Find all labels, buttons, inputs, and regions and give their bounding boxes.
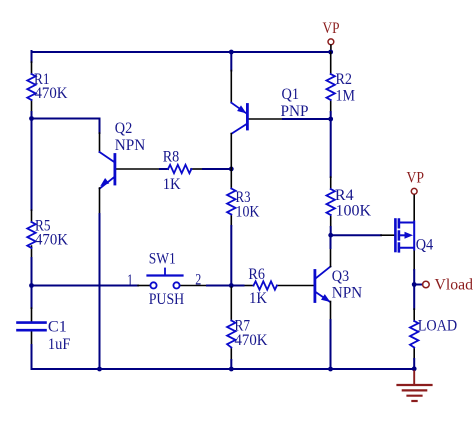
wire branch to Q2 collector [32,119,100,134]
resistor R6 [244,281,314,289]
label R8 [163,148,180,165]
value 1K (R8) [163,176,181,193]
label R3 [236,189,251,206]
svg-text:470K: 470K [235,332,268,349]
svg-text:1: 1 [127,272,133,289]
resistor R7 [227,286,235,361]
wire node G to LOAD [413,285,415,310]
svg-text:C1: C1 [48,319,67,336]
resistor R2 [327,52,335,112]
junction node C (R8 / Q1 collector / R3) [229,167,234,172]
ground [398,371,432,401]
wire R2 to node D [330,112,332,119]
power port VP (right) [411,188,417,194]
label PNP (Q1) [281,103,309,120]
value 470K (R1) [35,85,68,102]
label Q1 [282,86,300,103]
svg-text:NPN: NPN [332,284,363,301]
label R1 [34,71,50,88]
resistor R1 [27,62,35,112]
value 100K (R4) [336,203,372,220]
wire node E to R6 [231,285,243,287]
svg-text:VP: VP [323,20,340,37]
resistor R8 [168,165,203,173]
label LOAD [418,317,458,334]
svg-text:R4: R4 [335,187,354,204]
wire left rail bottom corner [31,345,33,369]
power port Vload [423,281,430,288]
label R5 [35,218,51,235]
value 470K (R5) [35,232,68,249]
resistor R5 [27,210,35,258]
wire node G to Vload port [414,284,422,286]
label VP (right) [407,170,425,187]
junction node B (left rail / switch row) [29,283,34,288]
wire bottom rail [32,368,415,370]
svg-text:100K: 100K [336,203,372,220]
svg-text:470K: 470K [35,85,68,102]
capacitor C1 [18,308,46,345]
wire R7 to bottom rail [230,360,232,369]
switch SW1 [138,269,207,289]
label Q2 [115,120,133,137]
label PUSH (SW1) [149,291,185,308]
svg-text:1M: 1M [336,87,356,104]
pin number 1 (SW1) [127,272,133,289]
wire Q4 source to node G [413,270,415,285]
svg-text:Q1: Q1 [282,86,300,103]
transistor Q4 (MOSFET) [381,195,414,270]
label NPN (Q3) [332,284,363,301]
wire left rail R1 to node A [31,112,33,119]
svg-text:PUSH: PUSH [149,291,185,308]
resistor R3 [227,169,235,226]
label R7 [235,317,251,334]
pin number 2 (SW1) [195,271,201,288]
wire Q1 collector down to node C [230,134,232,170]
value 470K (R7) [235,332,268,349]
label Q4 [416,236,434,253]
junction VP / top rail [328,50,333,55]
svg-text:VP: VP [407,170,425,187]
label SW1 [149,250,176,267]
junction ground node / bottom rail [412,366,417,371]
svg-text:SW1: SW1 [149,250,176,267]
label R6 [248,266,265,283]
label NPN (Q2) [115,137,146,154]
svg-text:NPN: NPN [115,137,146,154]
value 1M (R2) [336,87,356,104]
wire node D to R4 [330,119,332,177]
wire R4 to node F [330,227,332,235]
junction node E (switch row / R7) [229,283,234,288]
svg-text:1K: 1K [249,290,267,307]
svg-text:R2: R2 [336,71,353,88]
wire node F to Q4 gate [331,234,381,236]
transistor Q3 [315,248,331,320]
junction node D (R2 / Q1 base / R4) [328,117,333,122]
wire LOAD to ground node [413,359,415,369]
wire left rail upper [31,51,33,62]
svg-text:R6: R6 [248,266,265,283]
wire R8 to node C [203,168,231,170]
label R4 [335,187,354,204]
svg-text:LOAD: LOAD [418,317,458,334]
label C1 [48,319,67,336]
wire SW1 pin2 to node E [207,285,231,287]
value 10K (R3) [236,204,260,221]
svg-text:2: 2 [195,271,201,288]
wire R3 to node E [230,226,232,286]
svg-text:470K: 470K [35,232,68,249]
wire Q1 emitter stub [230,52,232,71]
label VP (top) [323,20,340,37]
junction node A (left rail / Q2 branch) [29,116,34,121]
transistor Q2 [100,133,161,189]
wire Q3 collector to node F [330,235,332,248]
svg-text:R8: R8 [163,148,180,165]
label Q3 [332,268,350,285]
svg-text:PNP: PNP [281,103,309,120]
label Vload [435,276,474,293]
junction Q3 emitter / bottom rail [328,367,333,372]
wire Q2 base to R8 [160,168,168,170]
wire Q1 base to node D [283,118,331,120]
resistor R4 [327,177,335,227]
svg-text:Q3: Q3 [332,268,350,285]
junction Q1 emitter / top rail [229,50,234,55]
wire left rail mid [31,119,33,211]
svg-text:1uF: 1uF [48,336,71,353]
svg-text:1K: 1K [163,176,181,193]
wire left rail R5 to node B [31,258,33,286]
junction node F (R4 / Q3 collector / Q4 gate) [328,233,333,238]
junction R7 / bottom rail [229,367,234,372]
transistor Q1 [231,71,283,134]
svg-text:Vload: Vload [435,276,474,293]
wire Q3 emitter to bottom rail [330,320,332,369]
junction Q2 emitter / bottom rail [97,367,102,372]
svg-text:Q2: Q2 [115,120,133,137]
wire Q2 emitter down [99,188,101,369]
svg-text:10K: 10K [236,204,260,221]
junction node G (Q4 / Vload / LOAD) [412,282,417,287]
label R2 [336,71,353,88]
wire top rail [32,51,331,53]
svg-text:Q4: Q4 [416,236,434,253]
value 1K (R6) [249,290,267,307]
resistor LOAD [410,309,418,359]
power port VP (top) [328,39,334,51]
wire left rail to C1 [31,286,33,309]
value 1uF [48,336,71,353]
wire switch row left [32,285,139,287]
